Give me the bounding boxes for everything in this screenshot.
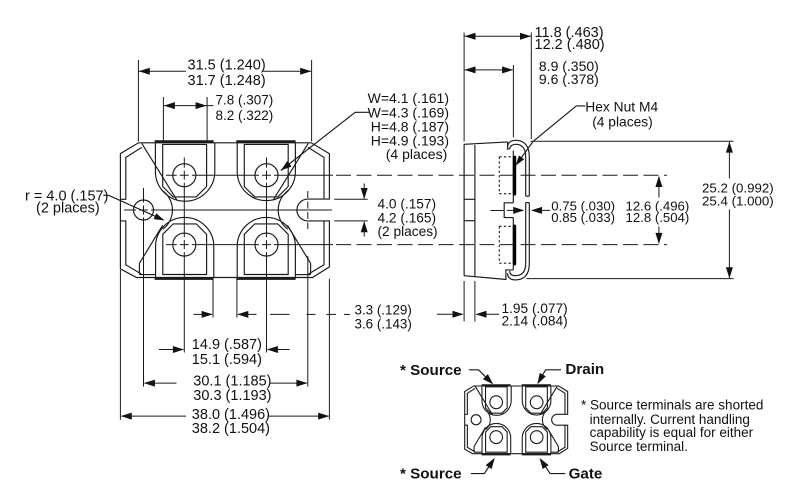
- svg-text:4.0 (.157): 4.0 (.157): [378, 197, 437, 212]
- dim 3.3 arrows: [194, 313, 213, 315]
- hex nut dashed box bottom: [498, 226, 500, 263]
- svg-text:(2 places): (2 places): [378, 224, 438, 239]
- dim 31.5 ext line left: [137, 60, 139, 142]
- mold diagonal bottom-right: [547, 427, 558, 446]
- dim 4.0 ext line bottom: [334, 220, 367, 222]
- leader gate: [541, 459, 566, 473]
- terminal tab top-left: [163, 144, 207, 197]
- svg-text:(4 places): (4 places): [386, 146, 447, 162]
- screw hole top-left: [173, 164, 196, 187]
- leader source top-left: [469, 370, 492, 384]
- terminal tab top-right: [244, 144, 288, 197]
- leader W/H to terminal: [281, 112, 369, 170]
- centerline vertical right terminals: [266, 158, 268, 353]
- centerline horizontal bottom holes dashed to side view: [336, 244, 667, 246]
- svg-text:12.8 (.504): 12.8 (.504): [626, 210, 690, 225]
- dim 8.9 ext line: [512, 65, 514, 138]
- terminal well bottom-left: [156, 217, 214, 277]
- dim 3.3 dashed leader: [270, 313, 290, 315]
- terminal strap bottom hook inner: [510, 264, 526, 276]
- svg-text:7.8 (.307): 7.8 (.307): [216, 93, 274, 108]
- dim 4.0 down arrow: [363, 184, 365, 199]
- strap bottom start cap: [526, 202, 530, 204]
- dim 1.95 ext lines: [463, 281, 465, 322]
- svg-text:Drain: Drain: [565, 361, 604, 378]
- terminal strap top hook outer: [508, 140, 530, 196]
- dim 25.2 text: [698, 179, 778, 210]
- main top view package: [120, 141, 329, 278]
- terminal tab thick edges top: [155, 140, 214, 142]
- leader hex nut: [517, 106, 586, 164]
- dim 25.2 ext line top: [531, 140, 734, 142]
- dim 4.0 up arrow: [363, 222, 365, 237]
- svg-text:14.9 (.587): 14.9 (.587): [192, 337, 262, 353]
- screw hole bottom-left: [173, 233, 196, 256]
- svg-text:31.7 (1.248): 31.7 (1.248): [188, 73, 266, 89]
- terminal tab bottom-right: [526, 427, 548, 452]
- dim 7.8 ext line left: [162, 97, 164, 142]
- dim 0.75 arrows: [507, 209, 523, 211]
- centerline vertical left terminals: [183, 158, 185, 353]
- dim 7.8 line: [164, 105, 214, 107]
- dim 14.9 arrows: [159, 349, 183, 351]
- side view body face lower: [512, 218, 514, 270]
- svg-text:0.85 (.033): 0.85 (.033): [551, 210, 615, 225]
- dim 3.3 ext line left: [212, 279, 214, 318]
- terminal metal bar bottom (black): [513, 226, 516, 264]
- centerline vertical left ear: [143, 188, 145, 387]
- svg-text:8.2 (.322): 8.2 (.322): [216, 108, 274, 123]
- centerline horizontal bottom holes: [166, 244, 333, 246]
- pinout package (scaled copy): [465, 385, 568, 454]
- side view top edge: [464, 142, 508, 144]
- dim 30.1 arrows: [144, 380, 155, 387]
- svg-text:* Source: * Source: [400, 362, 462, 379]
- terminal tab bottom-left: [163, 224, 207, 275]
- leader source bottom-left: [471, 459, 494, 473]
- svg-text:12.2 (.480): 12.2 (.480): [535, 37, 605, 53]
- dim 11.8 ext line left: [463, 33, 465, 142]
- terminal metal bar top (black): [513, 157, 516, 194]
- svg-text:W=4.1 (.161): W=4.1 (.161): [368, 90, 449, 106]
- mold waist curve left: [485, 410, 490, 430]
- mold diagonal bottom-left: [139, 225, 162, 263]
- centerline horizontal top holes: [166, 174, 333, 176]
- dim 11.8 line+arrows: [465, 35, 531, 37]
- svg-text:25.4 (1.000): 25.4 (1.000): [702, 194, 774, 209]
- terminal well top-left: [482, 386, 511, 415]
- terminal well top-right: [522, 386, 551, 415]
- hex nut dashed box top: [498, 157, 500, 194]
- dim 3.3 ext line right: [236, 279, 238, 318]
- svg-text:2.14 (.084): 2.14 (.084): [502, 313, 568, 328]
- mold diagonal bottom-left: [474, 427, 485, 446]
- mold diagonal top-left: [475, 386, 492, 415]
- dim 1.95 arrows: [437, 313, 462, 315]
- terminal well top-right: [237, 143, 295, 201]
- screw hole top-right: [530, 396, 543, 409]
- svg-text:9.6 (.378): 9.6 (.378): [539, 71, 599, 87]
- mounting hole left ear: [134, 200, 154, 220]
- svg-text:Source terminal.: Source terminal.: [590, 439, 688, 454]
- centerline horizontal ears: [124, 209, 332, 211]
- side view base plate left edge: [463, 144, 465, 275]
- side view bottom step: [506, 270, 513, 279]
- screw hole bottom-right: [255, 233, 278, 256]
- svg-text:38.2 (1.504): 38.2 (1.504): [192, 421, 270, 437]
- body inner edge lines: [465, 388, 475, 414]
- dim 38.0 arrows: [121, 413, 132, 420]
- side view ear ticks: [464, 198, 475, 200]
- terminal tab thick edges top: [482, 383, 511, 387]
- side view middle centerline: [491, 210, 505, 212]
- svg-text:(2 places): (2 places): [36, 201, 100, 217]
- dim 38.0 ext line left: [119, 270, 121, 420]
- screw hole bottom-left: [490, 431, 503, 444]
- dim 7.8 ext line right: [206, 97, 208, 142]
- dim 31.5 line: [139, 70, 186, 72]
- dim 11.8 ext line right: [530, 33, 532, 140]
- side view bottom edge: [464, 276, 506, 280]
- strap top end cap: [526, 195, 530, 197]
- terminal tab bottom-left: [486, 427, 508, 452]
- dim 25.2 line+arrows: [728, 142, 730, 278]
- dim 38.0 ext line right: [328, 279, 330, 420]
- mold diagonal bottom-right: [287, 225, 310, 263]
- dim 25.2 ext line bottom: [527, 278, 734, 280]
- dim 4.0 ext line top: [334, 198, 367, 200]
- terminal strap top hook inner: [510, 144, 526, 196]
- terminal tab thick edges bottom: [482, 452, 511, 456]
- svg-text:30.3 (1.193): 30.3 (1.193): [193, 388, 271, 404]
- terminal strap bottom verticals: [525, 203, 527, 264]
- terminal tab thick edges bottom: [155, 278, 214, 280]
- centerline horizontal top holes dashed to side view: [336, 174, 667, 176]
- center mark gaps: [177, 174, 180, 177]
- mold waist curve right: [278, 190, 289, 229]
- mold diagonal top-left: [142, 143, 177, 200]
- side view base plate inner line: [474, 145, 476, 276]
- dim 31.5 ext line right: [311, 60, 313, 142]
- terminal well bottom-left: [482, 423, 511, 453]
- svg-text:* Source: * Source: [400, 465, 462, 482]
- package body outline: [465, 386, 568, 454]
- screw hole top-right: [255, 164, 278, 187]
- centerline vertical right ear slot dashed: [307, 191, 309, 229]
- side view top step: [508, 142, 510, 149]
- terminal well bottom-right: [522, 423, 551, 453]
- leader drain: [538, 370, 561, 383]
- dim 7.8 arrows: [164, 102, 175, 109]
- leader r=4.0 to waist: [103, 195, 163, 220]
- mold diagonal top-right: [273, 143, 308, 200]
- package body outline: [120, 143, 329, 278]
- dim 31.5 arrows: [139, 68, 150, 75]
- terminal well top-left: [155, 143, 214, 201]
- extension line right ear slot center: [307, 256, 309, 387]
- terminal strap bottom hook outer: [508, 264, 530, 280]
- side view body face upper: [512, 151, 514, 203]
- svg-text:(4 places): (4 places): [592, 115, 653, 130]
- side view gate notch: [504, 203, 513, 218]
- terminal tab top-right: [526, 387, 548, 413]
- svg-text:capability is equal for either: capability is equal for either: [590, 425, 754, 440]
- dim 12.6 line+arrows: [658, 177, 660, 198]
- screw hole top-left: [490, 396, 503, 409]
- svg-text:15.1 (.594): 15.1 (.594): [192, 352, 262, 368]
- mold waist curve right: [542, 410, 547, 430]
- dim 8.9 line+arrows: [465, 69, 513, 71]
- terminal well bottom-right: [237, 217, 295, 277]
- svg-text:Hex Nut M4: Hex Nut M4: [585, 100, 658, 115]
- svg-text:Gate: Gate: [569, 465, 603, 482]
- terminal tab top-left: [486, 387, 508, 413]
- svg-text:31.5 (1.240): 31.5 (1.240): [188, 58, 266, 74]
- svg-text:3.6 (.143): 3.6 (.143): [355, 316, 412, 331]
- terminal tab bottom-right: [244, 224, 288, 275]
- body inner edge lines: [120, 147, 141, 199]
- mold diagonal top-right: [540, 386, 557, 415]
- mold waist curve left: [162, 190, 173, 229]
- screw hole bottom-right: [530, 431, 543, 444]
- svg-text:3.3 (.129): 3.3 (.129): [355, 302, 412, 317]
- svg-text:* Source terminals are shorted: * Source terminals are shorted: [581, 397, 763, 412]
- mounting hole left ear: [471, 415, 481, 425]
